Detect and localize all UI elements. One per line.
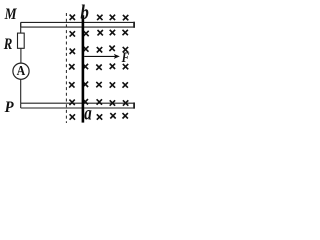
svg-text:P: P — [4, 99, 14, 116]
field crosses row 3 — [70, 49, 75, 54]
field crosses row 1 — [70, 15, 75, 20]
svg-text:F: F — [121, 50, 130, 66]
field crosses row 7 — [70, 114, 75, 119]
force arrow F — [84, 54, 120, 59]
wire rail to resistor — [20, 22, 22, 33]
svg-text:a: a — [84, 103, 92, 124]
resistor R box — [18, 33, 25, 48]
bottom rail (rail P, lower conductor) — [21, 103, 134, 108]
field crosses row 2 — [70, 31, 75, 36]
wire ammeter to bottom rail — [20, 79, 22, 103]
field crosses row 5 — [69, 82, 74, 87]
svg-text:b: b — [80, 1, 89, 24]
svg-text:A: A — [17, 64, 26, 79]
field crosses row 6 — [69, 100, 74, 105]
wire resistor to ammeter — [20, 48, 22, 63]
field crosses — [69, 15, 128, 120]
top rail (rail M, upper conductor) — [21, 22, 134, 27]
field crosses row 4 — [69, 64, 74, 69]
dashed field boundary — [65, 13, 67, 123]
rod ab — [82, 15, 85, 122]
svg-text:R: R — [3, 36, 13, 53]
svg-text:M: M — [4, 6, 17, 23]
ammeter circle — [13, 63, 29, 79]
